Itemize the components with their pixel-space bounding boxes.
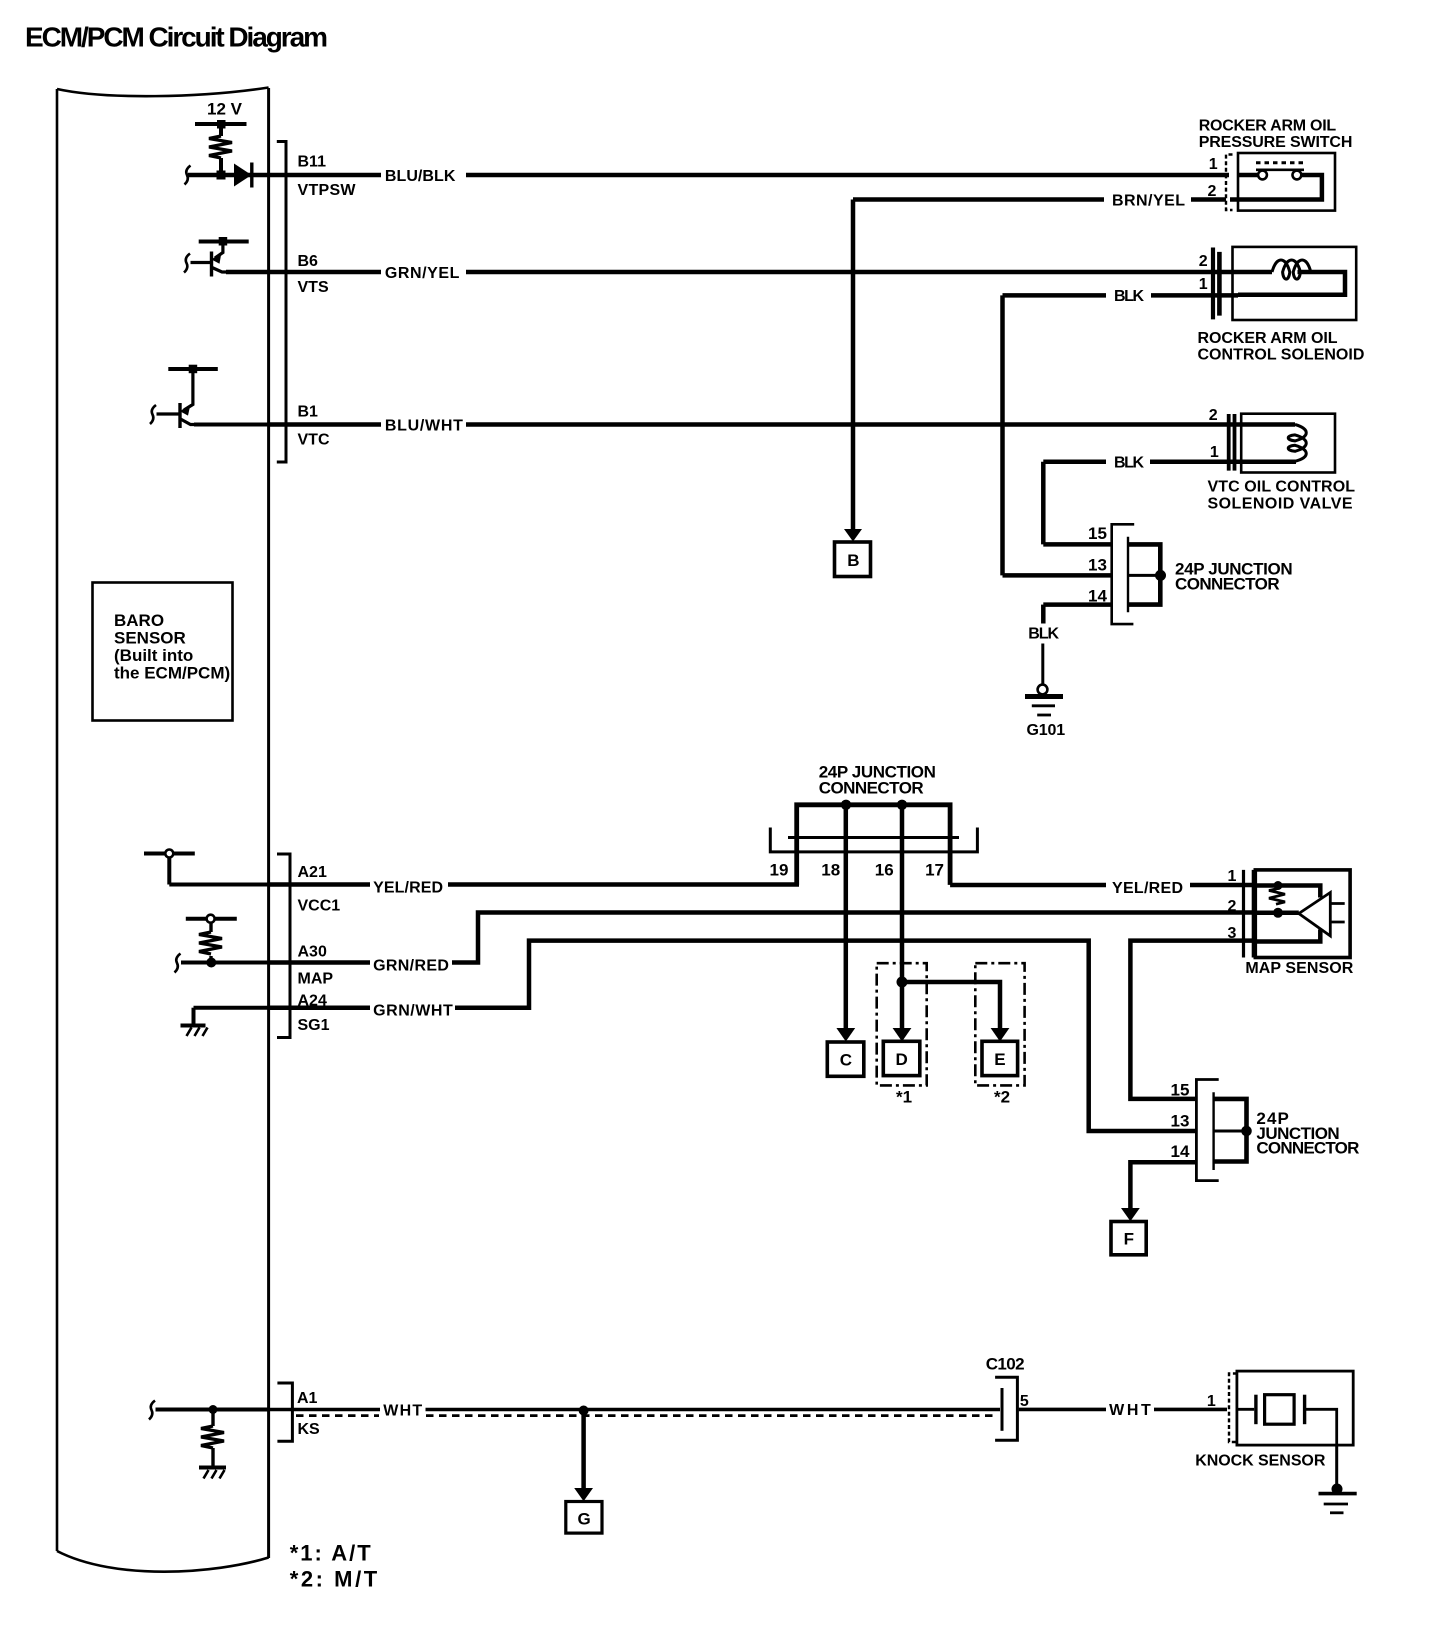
svg-text:YEL/RED: YEL/RED: [373, 879, 443, 896]
svg-text:YEL/RED: YEL/RED: [1112, 880, 1183, 897]
wire A21 internal: [169, 883, 268, 887]
wire A30 internal: [181, 961, 269, 965]
node: center junction dot pin16: [897, 800, 907, 810]
svg-text:BLU/BLK: BLU/BLK: [385, 168, 456, 185]
svg-text:PRESSURE SWITCH: PRESSURE SWITCH: [1199, 134, 1353, 151]
ECM connector bracket B11/B6/B1: [277, 142, 286, 463]
node: junction dot (mid right connector): [1241, 1126, 1252, 1137]
node: B11 internal junction dot: [217, 171, 226, 180]
svg-text:2: 2: [1228, 898, 1237, 915]
svg-text:(Built into: (Built into: [114, 646, 193, 665]
wire junction pin15: [1043, 542, 1111, 547]
svg-text:19: 19: [770, 860, 789, 879]
wire A1 internal: [156, 1408, 269, 1412]
svg-text:GRN/YEL: GRN/YEL: [385, 265, 460, 282]
transistor Q1 (VTS) top rail: [199, 240, 249, 244]
svg-text:A1: A1: [297, 1390, 318, 1407]
resistor R-VTPSW (pull-up inside ECM): [209, 128, 232, 175]
svg-text:1: 1: [1207, 1393, 1216, 1410]
wire BLK vertical to junction pin 13: [1000, 295, 1005, 575]
wire junction pin13: [1003, 573, 1112, 578]
diode D1 (VTPSW): [234, 164, 252, 187]
rocker arm oil control solenoid box: [1233, 247, 1357, 320]
svg-text:KS: KS: [298, 1421, 321, 1438]
ECM/PCM enclosure box: [57, 88, 269, 1572]
knock sensor connector bracket: [1229, 1374, 1237, 1443]
svg-text:B1: B1: [298, 404, 319, 421]
node: MAP resistor top dot: [1274, 881, 1283, 890]
connector F box: [1111, 1222, 1146, 1255]
wire junction pin14 to F: [1130, 1162, 1196, 1208]
wire pin18 down to C: [844, 805, 849, 1029]
svg-text:GRN/WHT: GRN/WHT: [373, 1003, 453, 1020]
wire BLK to G101: [1041, 605, 1046, 624]
svg-text:VTC: VTC: [298, 432, 330, 449]
arrow into F: [1121, 1208, 1140, 1221]
node: MAP resistor bottom dot: [1273, 908, 1283, 918]
node: Q2 collector dot: [189, 365, 198, 374]
MAP sensor internals: [1255, 886, 1344, 942]
MAP sensor connector bars: [1242, 870, 1245, 958]
connector B box: [835, 542, 871, 577]
resistor R-MAP (inside ECM): [199, 923, 222, 963]
wire-break hook at A30: [175, 954, 181, 973]
svg-text:VTPSW: VTPSW: [298, 182, 357, 199]
wire-break hook at Q2 base: [150, 405, 156, 424]
wire pin16 down: [900, 805, 905, 982]
wire BLK (VTC solenoid pin1): [1150, 459, 1241, 464]
shield dashed line (knock sensor cable): [296, 1414, 379, 1417]
svg-text:5: 5: [1020, 1393, 1029, 1410]
svg-text:CONNECTOR: CONNECTOR: [819, 779, 924, 798]
node: center junction dot pin18: [841, 800, 851, 810]
wire-break hook at A1: [149, 1401, 155, 1420]
24P junction connector (center) receptacle: [770, 828, 977, 852]
svg-text:A30: A30: [298, 944, 327, 961]
ECM connector bracket A1: [277, 1383, 292, 1441]
wire vertical BRN/YEL down to B with arrow: [851, 200, 856, 531]
pressure switch internals: [1230, 163, 1322, 200]
svg-text:B6: B6: [298, 253, 319, 270]
svg-text:BARO: BARO: [114, 611, 164, 630]
wire YEL/RED left (A21 to junction pin 19): [269, 882, 370, 887]
connector D box: [883, 1041, 920, 1075]
wire-break hook at B11 internal: [185, 166, 191, 185]
svg-text:G: G: [578, 1510, 591, 1529]
wire WHT (A1 to C102): [269, 1408, 380, 1412]
svg-text:2: 2: [1209, 407, 1218, 424]
svg-text:E: E: [994, 1050, 1005, 1069]
MAP sensor box: [1255, 870, 1350, 958]
node: A1 junction dot: [209, 1405, 218, 1414]
wire to D arrow: [900, 982, 905, 1029]
VTC oil control solenoid valve box: [1241, 414, 1335, 473]
svg-text:*2: *2: [994, 1088, 1010, 1107]
24P junction connector (center) male plug: [797, 805, 950, 885]
BARO sensor box: [93, 583, 233, 721]
svg-text:SOLENOID VALVE: SOLENOID VALVE: [1208, 495, 1353, 512]
arrow into D: [893, 1028, 912, 1042]
connector E box: [982, 1041, 1018, 1075]
knock sensor box: [1237, 1371, 1353, 1445]
svg-text:SENSOR: SENSOR: [114, 629, 186, 648]
connector G box: [566, 1502, 602, 1534]
wire BRN/YEL (pressure switch pin 2 to B): [853, 197, 1104, 202]
wire BLU/BLK (B11 to pressure switch pin 1): [269, 173, 381, 178]
wire WHT (C102 to knock sensor): [1019, 1408, 1106, 1412]
dash-dot M/T option box around E: [975, 963, 1024, 1085]
svg-text:BRN/YEL: BRN/YEL: [1112, 192, 1185, 209]
wire from junction to E: [902, 982, 1000, 1029]
transistor Q2 (VTC) top rail: [168, 367, 218, 371]
wire BLK (rocker solenoid pin1): [1151, 293, 1238, 298]
wire down to G with arrow: [581, 1410, 586, 1489]
svg-text:12 V: 12 V: [207, 100, 243, 119]
transistor Q2 (VTC): [157, 373, 199, 428]
svg-text:1: 1: [1199, 276, 1208, 293]
svg-text:MAP: MAP: [298, 971, 334, 988]
in-line connector C102: [995, 1377, 1017, 1440]
ground SG1 (signal ground symbol): [181, 1008, 208, 1036]
24P junction connector (upper right) inner bar: [1127, 537, 1129, 613]
wire junction pin14: [1043, 602, 1111, 607]
svg-text:GRN/RED: GRN/RED: [373, 957, 449, 974]
node: junction dot above D: [897, 977, 908, 988]
node: 12V junction dot: [217, 120, 226, 129]
svg-text:VTC OIL CONTROL: VTC OIL CONTROL: [1208, 478, 1356, 495]
svg-text:14: 14: [1171, 1142, 1190, 1161]
arrow into E: [991, 1028, 1010, 1042]
svg-text:2: 2: [1208, 183, 1217, 200]
svg-text:1: 1: [1228, 868, 1237, 885]
svg-text:B11: B11: [298, 154, 327, 171]
svg-text:13: 13: [1088, 556, 1107, 575]
svg-text:VTS: VTS: [298, 279, 329, 296]
ground G101: [1025, 685, 1063, 715]
arrow into C: [836, 1028, 855, 1042]
24P junction connector (mid right) inner bar: [1212, 1092, 1214, 1170]
svg-text:WHT: WHT: [383, 1402, 422, 1419]
rocker arm oil pressure switch box: [1238, 153, 1335, 211]
node: A30 junction dot: [206, 958, 216, 968]
wire-break hook at Q1 base: [184, 254, 190, 273]
svg-text:13: 13: [1171, 1112, 1190, 1131]
VTC solenoid coil and internal wiring: [1241, 425, 1306, 462]
svg-text:16: 16: [875, 860, 894, 879]
wire GRN/RED (A30 to MAP sensor pin 2): [269, 960, 370, 965]
svg-text:C: C: [840, 1051, 852, 1070]
dash-dot A/T option box around D: [877, 963, 927, 1085]
svg-text:BLK: BLK: [1028, 626, 1059, 643]
resistor inside MAP sensor: [1269, 889, 1285, 905]
wire BLU/WHT (B1 to VTC solenoid pin 2): [269, 422, 381, 427]
wire GRN/WHT (A24 to junction pin 13): [269, 1005, 370, 1010]
node: junction dot (upper right connector): [1155, 570, 1166, 581]
svg-text:BLU/WHT: BLU/WHT: [385, 417, 463, 434]
svg-text:A21: A21: [298, 864, 327, 881]
svg-text:G101: G101: [1027, 722, 1066, 739]
24P junction connector (upper right) body: [1128, 544, 1160, 604]
svg-text:D: D: [896, 1050, 908, 1069]
pressure switch connector bracket: [1226, 155, 1233, 211]
ECM connector bracket A21/A30/A24: [277, 854, 290, 1038]
svg-text:2: 2: [1199, 253, 1208, 270]
wire GRN/YEL (B6 to rocker solenoid pin 2): [269, 270, 381, 275]
svg-text:ROCKER ARM OIL: ROCKER ARM OIL: [1198, 330, 1338, 347]
24P junction connector (upper right) bracket: [1112, 524, 1135, 624]
wire B11 internal: [188, 173, 269, 178]
wire A24 internal: [194, 1006, 269, 1010]
24P junction connector (mid right) body: [1214, 1099, 1247, 1162]
rocker solenoid coil and internal wiring: [1233, 260, 1346, 295]
svg-text:*1: A/T: *1: A/T: [290, 1541, 372, 1566]
wire knock sensor to ground: [1335, 1445, 1338, 1485]
rocker solenoid connector bars: [1211, 248, 1215, 320]
wire MAP pin3 to junction pin 15: [1130, 941, 1255, 1099]
svg-text:WHT: WHT: [1109, 1402, 1151, 1419]
ground at knock sensor: [1332, 1484, 1343, 1495]
svg-text:ECM/PCM Circuit Diagram: ECM/PCM Circuit Diagram: [25, 22, 328, 53]
svg-text:KNOCK SENSOR: KNOCK SENSOR: [1195, 1453, 1326, 1470]
svg-text:*2: M/T: *2: M/T: [290, 1567, 378, 1592]
svg-text:BLK: BLK: [1114, 455, 1144, 472]
ground at A1 resistor: [199, 1468, 226, 1479]
svg-text:MAP SENSOR: MAP SENSOR: [1245, 960, 1353, 977]
wire B1 internal: [194, 423, 269, 427]
svg-text:17: 17: [925, 860, 944, 879]
wire B6 internal: [226, 270, 269, 275]
svg-text:BLK: BLK: [1114, 288, 1144, 305]
svg-text:the ECM/PCM): the ECM/PCM): [114, 664, 230, 683]
svg-text:*1: *1: [896, 1088, 912, 1107]
svg-text:CONNECTOR: CONNECTOR: [1175, 575, 1280, 594]
svg-text:CONNECTOR: CONNECTOR: [1256, 1139, 1359, 1158]
svg-text:ROCKER ARM OIL: ROCKER ARM OIL: [1199, 118, 1337, 135]
svg-text:1: 1: [1209, 156, 1218, 173]
knock sensor internals: [1237, 1395, 1337, 1445]
arrow into G: [574, 1488, 593, 1501]
VTC solenoid connector bars: [1227, 414, 1231, 471]
resistor R-KS (inside ECM): [201, 1410, 224, 1468]
svg-text:1: 1: [1210, 444, 1219, 461]
svg-text:F: F: [1124, 1230, 1134, 1249]
node: junction dot at G tap: [579, 1406, 589, 1416]
24P junction connector (mid right) bracket: [1196, 1080, 1218, 1181]
svg-text:15: 15: [1171, 1081, 1190, 1100]
svg-text:CONTROL SOLENOID: CONTROL SOLENOID: [1198, 347, 1365, 364]
svg-text:VCC1: VCC1: [298, 898, 341, 915]
svg-text:C102: C102: [986, 1355, 1025, 1374]
MAP input symbol (A30) rail: [186, 917, 237, 921]
connector C box: [827, 1042, 864, 1076]
VCC1 source symbol (A21): [144, 852, 195, 856]
svg-text:15: 15: [1088, 524, 1107, 543]
wire BLK vertical to junction pin 15: [1041, 462, 1046, 545]
svg-text:B: B: [847, 551, 859, 570]
wire YEL/RED right (junction pin 17 to MAP pin 1): [950, 883, 1106, 888]
svg-text:18: 18: [821, 860, 840, 879]
transistor Q1 (VTS): [191, 245, 231, 277]
svg-text:SG1: SG1: [298, 1017, 330, 1034]
12V supply rail: [195, 122, 247, 126]
node: Q1 collector dot: [219, 237, 228, 246]
